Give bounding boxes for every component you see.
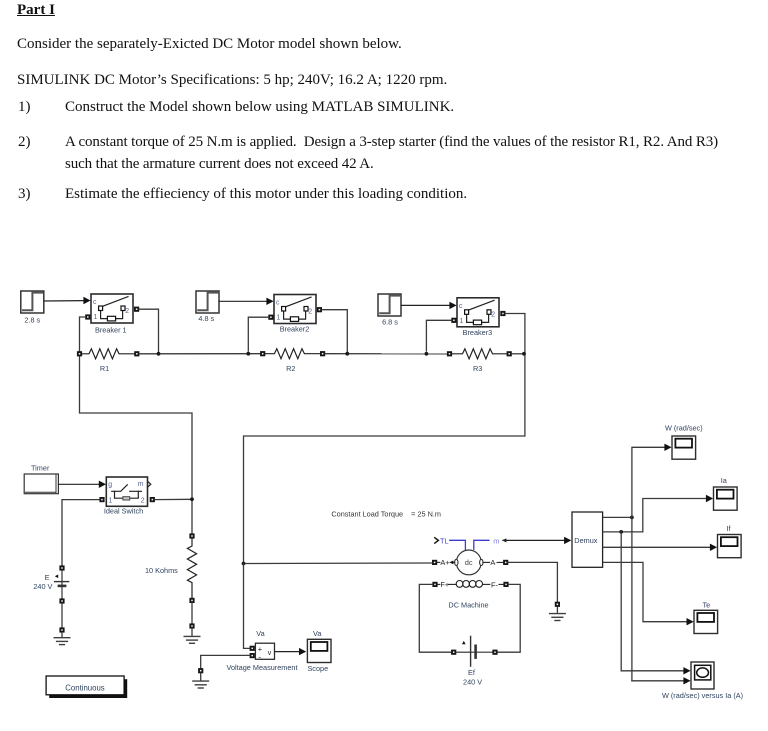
svg-text:Te: Te	[703, 601, 711, 610]
port pad ideal switch port1	[99, 497, 104, 502]
port pad R2 right	[320, 351, 325, 356]
port pad ground VM	[198, 668, 203, 673]
svg-text:Scope: Scope	[307, 664, 328, 673]
port pad R1 right	[134, 351, 139, 356]
svg-text:E: E	[45, 573, 50, 582]
demux out4 wire to Te	[603, 562, 687, 621]
DC source Ef 240V	[451, 650, 456, 655]
demux block	[572, 512, 603, 567]
ground below 10k	[191, 629, 193, 637]
port pad R2 left	[260, 351, 265, 356]
svg-text:Ia: Ia	[721, 476, 728, 485]
port pad ideal switch port2	[150, 497, 155, 502]
timer block	[24, 463, 58, 493]
port pad Breaker2 port2	[317, 307, 322, 312]
wire E minus to ground	[61, 604, 63, 628]
svg-text:-: -	[258, 651, 261, 661]
svg-text:Ef: Ef	[468, 668, 476, 677]
port pad R3 left	[447, 351, 452, 356]
wire F+ loop to Ef	[419, 584, 451, 652]
wire m to Demux	[502, 538, 506, 542]
field coil	[456, 581, 482, 588]
svg-text:Breaker 1: Breaker 1	[95, 326, 127, 335]
wire Ia to XY input1	[621, 532, 684, 671]
wire VM minus to ground	[201, 655, 250, 668]
port pad R1 left	[77, 351, 82, 356]
svg-text:1: 1	[109, 498, 113, 505]
wire F- loop to Ef	[498, 584, 521, 652]
ground below A-	[556, 607, 558, 614]
wire Breaker2 port2 down to bus	[322, 310, 347, 354]
resistor R1	[82, 349, 134, 359]
svg-text:F+: F+	[440, 580, 449, 589]
port pad Breaker3 port1	[451, 318, 456, 323]
wire switch port2 to node x192	[155, 498, 192, 500]
wire VM output to scope Va	[275, 651, 300, 653]
node junction at (243.5,563.5)	[242, 562, 246, 566]
wire Breaker1 port2 down to bus	[139, 309, 158, 354]
svg-text:Timer: Timer	[31, 463, 50, 472]
svg-text:g: g	[108, 482, 112, 489]
step source 2.8 s	[21, 291, 44, 313]
svg-text:2: 2	[141, 498, 145, 505]
circuit breaker Breaker1	[91, 294, 133, 323]
ideal switch block	[104, 477, 151, 516]
svg-text:dc: dc	[465, 558, 473, 567]
machine body circle	[456, 550, 481, 575]
node junction at (192,499)	[190, 497, 194, 501]
wire down to voltage measurement plus	[244, 564, 250, 649]
svg-text:A-: A-	[490, 558, 498, 567]
signal wire m blue	[474, 540, 489, 549]
svg-text:R1: R1	[100, 364, 109, 373]
armature port A-	[483, 561, 490, 563]
demux out3 wire to If	[603, 546, 711, 548]
svg-text:Va: Va	[313, 629, 322, 638]
wire A+ feeder	[244, 562, 432, 565]
signal wire TL blue	[450, 540, 466, 549]
svg-text:v: v	[268, 650, 272, 657]
wire step1 to Breaker1	[44, 300, 85, 302]
scope If	[718, 535, 742, 558]
svg-text:A+: A+	[440, 558, 449, 567]
svg-text:Continuous: Continuous	[65, 683, 105, 692]
node junction at 347.3	[345, 352, 349, 356]
wire Breaker2 port1 to bus	[248, 317, 268, 351]
node junction at 158.5	[157, 352, 161, 356]
port pad Breaker1 port2	[134, 307, 139, 312]
input chevron TL	[435, 538, 439, 543]
circuit breaker Breaker2	[274, 295, 316, 324]
svg-text:6.8 s: 6.8 s	[382, 317, 398, 326]
svg-text:4.8 s: 4.8 s	[198, 314, 214, 323]
port pad 10k bottom	[189, 598, 194, 603]
svg-text:240 V: 240 V	[33, 582, 52, 591]
wire Breaker1 port1 to node	[80, 317, 86, 351]
port pad ground E	[59, 627, 64, 632]
svg-text:Constant Load Torque = 25 N: Constant Load Torque = 25 N.m	[331, 510, 441, 519]
svg-text:m: m	[493, 536, 499, 545]
wire A- to ground	[508, 562, 557, 601]
voltage measurement block	[227, 629, 298, 672]
wire node down to y413 over to x192	[80, 351, 193, 534]
node junction at 523.8	[522, 352, 526, 356]
step source 6.8 s	[378, 294, 401, 316]
port pad VM plus	[250, 646, 255, 651]
resistor R2	[265, 349, 320, 359]
svg-text:240 V: 240 V	[463, 678, 482, 687]
node junction out2	[619, 530, 623, 534]
port pad VM minus	[250, 653, 255, 658]
port pad Breaker1 port1	[85, 314, 90, 319]
port pad E plus	[59, 565, 64, 570]
step source 4.8 s	[196, 291, 219, 313]
port pad ground A-	[555, 602, 560, 607]
wire R3 right to feeder node	[512, 353, 525, 355]
circuit breaker Breaker3	[457, 298, 499, 327]
port pad Breaker3 port2	[500, 311, 505, 316]
svg-text:TL: TL	[440, 536, 449, 545]
svg-text:m: m	[138, 481, 144, 488]
svg-text:W (rad/sec): W (rad/sec)	[665, 423, 703, 432]
wire bus R2 to R3	[325, 353, 447, 355]
wire step2 to Breaker2	[219, 300, 268, 302]
wire Breaker3 port2 down to bus and main feeder	[244, 314, 525, 564]
port pad E minus	[59, 598, 64, 603]
XY graph block	[691, 662, 714, 689]
wire step3 to Breaker3	[401, 304, 450, 306]
scope W	[672, 436, 696, 459]
svg-text:Ideal Switch: Ideal Switch	[104, 507, 143, 516]
svg-text:If: If	[726, 524, 731, 533]
battery E symbol	[55, 571, 69, 599]
field port F+	[432, 582, 437, 587]
ground below E	[61, 633, 63, 638]
node junction out1	[630, 516, 634, 520]
svg-text:Breaker2: Breaker2	[280, 324, 310, 333]
scope Te	[694, 610, 718, 633]
wire 10k to ground	[191, 603, 193, 623]
wire W to XY input2	[632, 680, 685, 682]
svg-text:R2: R2	[286, 364, 295, 373]
port pad 10k top	[189, 533, 194, 538]
svg-text:F-: F-	[491, 580, 499, 589]
port pad Breaker2 port1	[268, 315, 273, 320]
demux out1 wire to junction	[603, 516, 632, 518]
demux out2 wire	[603, 499, 707, 532]
svg-text:Breaker3: Breaker3	[463, 328, 493, 337]
svg-text:Demux: Demux	[574, 536, 597, 545]
wire W scope vertical	[632, 447, 666, 681]
scope Va	[307, 639, 331, 662]
port pad ground 10k	[189, 623, 194, 628]
port pad R3 right	[507, 351, 512, 356]
armature port A+	[432, 560, 437, 565]
svg-text:DC Machine: DC Machine	[448, 600, 488, 609]
scope Ia	[714, 487, 738, 510]
resistor R3	[452, 349, 507, 359]
resistor 10 Kohms	[187, 539, 196, 598]
wire bus R1 to R2	[139, 353, 260, 355]
svg-text:W (rad/sec) versus Ia (A): W (rad/sec) versus Ia (A)	[662, 691, 743, 700]
node junction at 248.3	[246, 352, 250, 356]
wire Breaker3 port1 to bus	[426, 320, 451, 351]
wire switch port1 to battery E	[62, 500, 99, 566]
svg-text:Voltage Measurement: Voltage Measurement	[227, 663, 298, 672]
svg-text:2.8 s: 2.8 s	[24, 316, 40, 325]
svg-text:Va: Va	[256, 629, 265, 638]
ground below VM minus	[200, 673, 202, 681]
wire timer to ideal switch	[59, 483, 100, 485]
node junction at 426.4	[425, 352, 429, 356]
svg-text:R3: R3	[473, 364, 482, 373]
document text	[17, 0, 55, 21]
svg-text:10 Kohms: 10 Kohms	[145, 566, 178, 575]
